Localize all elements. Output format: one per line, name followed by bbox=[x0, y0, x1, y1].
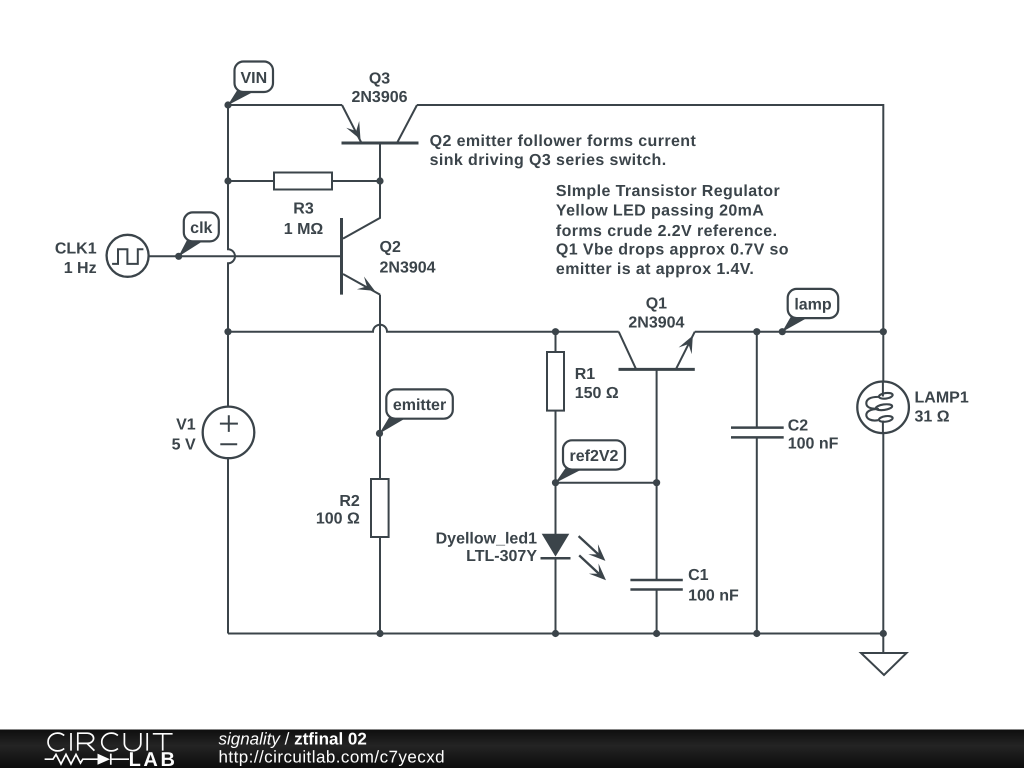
wire main row left (left rail to Q1 collector, hop over Q2 emitter column) bbox=[228, 325, 619, 332]
svg-text:LAB: LAB bbox=[129, 749, 178, 768]
svg-text:clk: clk bbox=[190, 220, 212, 237]
node main row left rail bbox=[224, 328, 231, 335]
ground bbox=[861, 653, 907, 675]
wire R3 right to Q3 base / Q2 collector column bbox=[332, 180, 380, 182]
svg-text:LAMP1: LAMP1 bbox=[915, 389, 969, 406]
node rail C2 bbox=[753, 630, 760, 637]
wire R1 top bbox=[555, 332, 557, 352]
svg-text:CLK1: CLK1 bbox=[55, 241, 97, 258]
wire lamp column bottom bbox=[882, 433, 884, 634]
wire C2 top (lamp node to C2) bbox=[756, 332, 758, 428]
wire C2 bottom to ground rail bbox=[756, 437, 758, 633]
svg-text:LTL-307Y: LTL-307Y bbox=[466, 548, 537, 565]
node main row R1 bbox=[552, 328, 559, 335]
svg-text:2N3906: 2N3906 bbox=[351, 89, 407, 106]
svg-text:100 nF: 100 nF bbox=[688, 588, 739, 605]
node at VIN bbox=[224, 101, 231, 108]
svg-text:2N3904: 2N3904 bbox=[628, 314, 684, 331]
wire ref2V2 row bbox=[556, 482, 657, 484]
transistor Q3 (PNP 2N3906) bbox=[342, 70, 419, 143]
CircuitLab logo: CIRCUIT lettering bbox=[48, 733, 173, 751]
svg-text:5 V: 5 V bbox=[172, 437, 196, 454]
node main row C2 bbox=[753, 328, 760, 335]
svg-text:V1: V1 bbox=[176, 416, 196, 433]
svg-text:forms crude 2.2V reference.: forms crude 2.2V reference. bbox=[556, 223, 778, 240]
clock source CLK1 bbox=[55, 235, 149, 277]
node ref2V2 bbox=[552, 479, 559, 486]
node rail C1 bbox=[653, 630, 660, 637]
node ref row / Q1 base bbox=[653, 479, 660, 486]
node emitter bbox=[376, 430, 383, 437]
node main row lamp tap bbox=[779, 328, 786, 335]
node rail R2 bbox=[376, 630, 383, 637]
svg-text:Q2 emitter follower forms curr: Q2 emitter follower forms current bbox=[430, 133, 697, 150]
svg-text:emitter: emitter bbox=[393, 397, 446, 414]
transistor Q2 (NPN 2N3904) bbox=[342, 181, 436, 295]
node ref2V2 flag bbox=[555, 440, 625, 483]
node lamp flag bbox=[782, 289, 838, 332]
wire left rail lower (V1 bottom to ground rail corner) bbox=[227, 458, 229, 633]
wire R1 bottom to ref node bbox=[555, 411, 557, 483]
wire Q1 base lead down to C1 bbox=[656, 369, 658, 580]
node rail LED bbox=[552, 630, 559, 637]
lamp LAMP1 bbox=[857, 382, 969, 434]
resistor R2 bbox=[316, 479, 389, 537]
voltage source V1 bbox=[172, 407, 255, 459]
svg-text:Q1: Q1 bbox=[646, 295, 667, 312]
svg-text:R2: R2 bbox=[339, 493, 360, 510]
wire left rail upper (VIN node down to V1, hop over clk wire) bbox=[228, 105, 235, 407]
annotation text block 2 bbox=[556, 183, 789, 278]
svg-text:Q2: Q2 bbox=[380, 239, 401, 256]
CircuitLab logo: resistor-diode strip and LAB bbox=[45, 754, 129, 765]
svg-text:signality / ztfinal 02: signality / ztfinal 02 bbox=[219, 730, 367, 749]
footer bar bbox=[0, 730, 1024, 768]
svg-text:100 nF: 100 nF bbox=[788, 435, 839, 452]
svg-text:150 Ω: 150 Ω bbox=[575, 385, 619, 402]
svg-text:Q3: Q3 bbox=[369, 70, 390, 87]
svg-text:C2: C2 bbox=[788, 418, 809, 435]
svg-text:http://circuitlab.com/c7yecxd: http://circuitlab.com/c7yecxd bbox=[219, 747, 446, 766]
svg-text:ref2V2: ref2V2 bbox=[570, 448, 619, 465]
svg-text:emitter is at approx 1.4V.: emitter is at approx 1.4V. bbox=[556, 261, 754, 278]
annotation text block 1 bbox=[430, 133, 697, 169]
svg-text:2N3904: 2N3904 bbox=[380, 260, 436, 277]
svg-text:Q1 Vbe drops approx 0.7V so: Q1 Vbe drops approx 0.7V so bbox=[556, 242, 789, 259]
node emitter flag bbox=[379, 389, 453, 433]
capacitor C1 bbox=[630, 567, 739, 605]
node at clk tap bbox=[175, 253, 182, 260]
wire top rail right (Q3 collector to right corner, down to lamp node) bbox=[417, 105, 883, 332]
wire R3 left bbox=[228, 180, 274, 182]
wire Q3 base lead bbox=[379, 143, 381, 181]
svg-text:100 Ω: 100 Ω bbox=[316, 510, 360, 527]
svg-text:lamp: lamp bbox=[794, 297, 832, 314]
node main row right rail bbox=[880, 328, 887, 335]
svg-text:C1: C1 bbox=[688, 567, 709, 584]
svg-text:Yellow LED passing 20mA: Yellow LED passing 20mA bbox=[556, 202, 764, 219]
svg-text:31 Ω: 31 Ω bbox=[915, 409, 950, 426]
wire ground rail bbox=[228, 633, 883, 635]
svg-text:sink driving Q3 series switch.: sink driving Q3 series switch. bbox=[430, 152, 667, 169]
svg-text:Dyellow_led1: Dyellow_led1 bbox=[436, 531, 537, 548]
svg-text:R1: R1 bbox=[575, 366, 596, 383]
resistor R3 bbox=[274, 173, 332, 238]
wire R2 bottom to ground rail bbox=[379, 537, 381, 634]
node R3 left bbox=[224, 177, 231, 184]
node R3 right bbox=[376, 177, 383, 184]
resistor R1 bbox=[547, 352, 619, 411]
capacitor C2 bbox=[731, 418, 839, 453]
wire LED cathode to ground rail bbox=[555, 558, 557, 633]
node rail ground bbox=[880, 630, 887, 637]
node VIN flag bbox=[228, 62, 273, 106]
wire LED anode bbox=[555, 483, 557, 534]
wire Q2 emitter column down through emitter node to R2 bbox=[379, 295, 381, 479]
wire top rail left (VIN node to Q3 emitter) bbox=[228, 104, 342, 106]
svg-text:SImple Transistor Regulator: SImple Transistor Regulator bbox=[556, 183, 780, 200]
transistor Q1 (NPN 2N3904) bbox=[619, 295, 695, 369]
svg-text:VIN: VIN bbox=[240, 70, 267, 87]
svg-text:1 MΩ: 1 MΩ bbox=[284, 221, 324, 238]
wire ground stub bbox=[882, 634, 884, 654]
node clk flag bbox=[178, 212, 218, 256]
LED Dyellow_led1 (LTL-307Y) bbox=[436, 531, 606, 581]
wire C1 bottom to ground rail bbox=[656, 590, 658, 634]
wire main row right (Q1 emitter to right rail) bbox=[695, 331, 884, 333]
wire lamp column top bbox=[882, 332, 884, 383]
wire clk row (CLK1 output to Q2 base) bbox=[149, 255, 342, 257]
svg-text:R3: R3 bbox=[293, 200, 314, 217]
svg-text:1 Hz: 1 Hz bbox=[64, 260, 97, 277]
